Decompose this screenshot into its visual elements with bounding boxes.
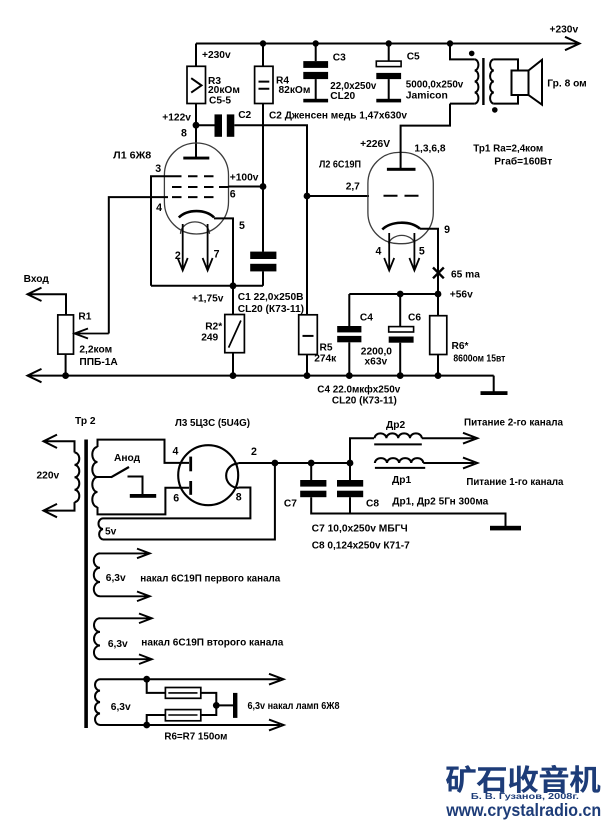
svg-text:6,3v: 6,3v (111, 702, 131, 713)
capacitor C7 (300, 480, 326, 497)
ground chassis bar under C3 (303, 99, 328, 103)
node cathode-R2 junction (230, 282, 237, 289)
tube L2 heater arrow pin 4 (384, 233, 394, 271)
label 6,3v winding 2 (108, 639, 128, 650)
svg-text:C7: C7 (284, 499, 297, 510)
wire pin2 junction down to 5v winding bottom (103, 463, 275, 540)
label R1 value (78, 312, 118, 369)
node rail-R2 (230, 372, 237, 379)
label pin 4 L3 (173, 446, 179, 458)
capacitor C5 (electrolytic) (376, 61, 401, 79)
label nakal 1 kanala (140, 574, 280, 585)
label Gr 8 om (547, 79, 586, 90)
inductor Dr1 (375, 458, 425, 468)
resistor R6 (430, 316, 447, 355)
ground chassis bar under switch (130, 494, 156, 498)
node 6.3v-3 bottom R7 junction (143, 722, 150, 729)
label R6=R7 150om (164, 732, 227, 743)
svg-text:+56v: +56v (450, 290, 473, 301)
capacitor C3 (303, 61, 328, 79)
label L3 5C3S (175, 418, 250, 429)
label 220v (37, 471, 60, 482)
svg-text:274к: 274к (314, 354, 337, 365)
ground chassis bar vertical (233, 693, 237, 718)
wire R5 top lead (306, 196, 308, 315)
ground chassis bar right (481, 391, 508, 395)
node pin2-5v junction (272, 460, 279, 467)
wire R6 bottom lead (437, 355, 439, 376)
svg-text:C8: C8 (366, 499, 379, 510)
svg-text:7: 7 (214, 249, 220, 261)
node +56v C6 (397, 291, 404, 298)
capacitor C1 (250, 252, 276, 272)
wire C4 top lead (348, 294, 350, 326)
node C7 junction (308, 460, 315, 467)
wire Dr2 output arrow (422, 433, 478, 444)
svg-text:+1,75v: +1,75v (192, 294, 224, 305)
svg-text:С5-5: С5-5 (209, 96, 231, 107)
inductor Dr2 (374, 433, 422, 444)
svg-text:5000,0x250v: 5000,0x250v (406, 80, 464, 91)
wire R4 top lead (262, 44, 264, 67)
capacitor C8 (337, 480, 363, 497)
wire R2 bottom lead (232, 353, 234, 376)
tube L1 anode plate (183, 157, 209, 160)
svg-text:8: 8 (181, 128, 187, 140)
label pin 3 (155, 163, 161, 175)
tube L2 grid dashed (pins 2,7) (384, 195, 421, 197)
label pin 4 L2 (376, 246, 382, 258)
wire ground rail with left arrow (27, 369, 494, 382)
wire R5 bottom lead (306, 355, 308, 376)
svg-text:8: 8 (236, 492, 242, 504)
node rail-Tr1 junction (447, 40, 453, 46)
wire 6.3v-2 bottom arrow (100, 654, 152, 664)
wire C8 bottom lead (349, 497, 351, 513)
svg-text:4: 4 (173, 446, 179, 458)
label C2 value (269, 111, 407, 122)
svg-text:6: 6 (230, 189, 236, 201)
tube L2 6S19P envelope (368, 152, 433, 243)
node rail-R6 (435, 372, 442, 379)
label pin 9 (444, 224, 450, 236)
wire R2 top lead (232, 286, 234, 315)
label 6,3v winding 3 (111, 702, 131, 713)
label C4 value (361, 346, 392, 367)
label +1,75v (192, 294, 224, 305)
wire to R6 hum resistor (147, 679, 166, 693)
label 6,3v winding 1 (106, 573, 126, 584)
label pins 2,7 (346, 182, 360, 193)
label pins 1,3,6,8 (414, 144, 445, 155)
node rail-C5 junction (386, 40, 392, 46)
svg-text:накал 6С19П второго канала: накал 6С19П второго канала (141, 638, 283, 649)
node +100v junction (260, 183, 267, 190)
wire C8 top lead (349, 463, 351, 480)
label C3 value (330, 53, 376, 103)
svg-text:82кОм: 82кОм (279, 85, 311, 96)
svg-text:6: 6 (173, 493, 179, 505)
svg-text:C5: C5 (407, 52, 420, 63)
wire Tr1 secondary to speaker (494, 59, 518, 103)
node grid L2 junction (304, 193, 311, 200)
svg-text:Тр1 Ra=2,4ком: Тр1 Ra=2,4ком (473, 144, 543, 155)
svg-text:накал 6С19П первого канала: накал 6С19П первого канала (140, 574, 280, 585)
wire 220v primary bottom lead arrow (43, 502, 75, 517)
wire 6.3v-1 top arrow (100, 549, 150, 559)
label Vhod (24, 274, 50, 285)
label pin 7 (214, 249, 220, 261)
tube L1 cathode arc (179, 211, 214, 217)
wire Tr1 primary bottom lead (450, 103, 475, 105)
label +230v left (202, 50, 231, 61)
transformer Tr1 primary winding (475, 59, 479, 103)
transformer Tr1 core (482, 58, 484, 105)
svg-text:4: 4 (376, 246, 382, 258)
svg-text:Л2 6С19П: Л2 6С19П (319, 160, 361, 171)
svg-text:5: 5 (239, 220, 245, 232)
wire input Vhod with arrow (27, 288, 66, 315)
svg-text:9: 9 (444, 224, 450, 236)
label pin 4 (156, 202, 162, 214)
svg-text:www.crystalradio.cn: www.crystalradio.cn (445, 800, 601, 820)
capacitor C6 (electrolytic) (389, 327, 414, 343)
svg-text:C4: C4 (360, 312, 373, 323)
wire Dr2 branch riser (350, 438, 374, 463)
label Anod (114, 453, 141, 464)
svg-text:2,2ком: 2,2ком (79, 345, 112, 356)
wire C7 bottom lead and ground bus (311, 497, 505, 526)
wire C2 right to grid node of L2 (234, 125, 307, 196)
svg-text:C2 Дженсен медь 1,47x630v: C2 Дженсен медь 1,47x630v (269, 111, 407, 122)
label C4 (360, 312, 373, 323)
label L1 6Zh8 (113, 151, 151, 162)
wire grid pin4 lead to R1 wiper riser (109, 197, 168, 333)
svg-text:R6*: R6* (452, 341, 469, 352)
label nakal 2 kanala (141, 638, 283, 649)
wire HV top lead to pin 4 plate (98, 440, 190, 463)
label Tr1 data (473, 144, 552, 168)
transformer Tr2 6.3v winding 3 (95, 679, 100, 725)
wire C6 top lead (399, 294, 401, 327)
tube L3 anode plate pin 4 (189, 457, 192, 472)
wire HV center tap (98, 476, 112, 478)
ground chassis bar psu (490, 526, 521, 531)
wire HV bottom lead to pin 6 plate (98, 488, 190, 515)
svg-text:C4 22.0мкфх250v: C4 22.0мкфх250v (317, 384, 400, 396)
wire to R7 hum resistor (147, 715, 166, 725)
potentiometer R1 (58, 315, 74, 354)
svg-text:Питание 2-го канала: Питание 2-го канала (464, 418, 563, 429)
label R3 value (208, 76, 240, 107)
svg-text:Л3 5Ц3С (5U4G): Л3 5Ц3С (5U4G) (175, 418, 250, 429)
wire rail right end down (493, 376, 495, 392)
node 8 anode junction (193, 122, 200, 129)
resistor R6 hum (165, 688, 200, 699)
wire C5 bottom lead (388, 79, 390, 99)
resistor R7 hum (165, 710, 200, 721)
svg-text:5: 5 (419, 246, 425, 258)
svg-text:20кОм: 20кОм (208, 85, 240, 96)
tube L1 heater arrow pin 7 (203, 224, 213, 271)
label author B.V.Guzanov 2008 (471, 791, 579, 801)
measure point X 65ma (433, 268, 444, 279)
svg-text:6,3v: 6,3v (108, 639, 128, 650)
label Dr1 (392, 475, 411, 486)
wire L2 anode riser to Tr1 (401, 104, 450, 168)
svg-text:1,3,6,8: 1,3,6,8 (414, 144, 445, 155)
svg-text:6,3v накал ламп 6Ж8: 6,3v накал ламп 6Ж8 (248, 701, 340, 712)
wire R4 bottom lead down to C1 (262, 104, 264, 252)
svg-text:65 ma: 65 ma (451, 270, 480, 281)
label pin 2 (175, 250, 181, 262)
transformer Tr2 HV secondary winding (92, 447, 97, 507)
wire +230v arrow right (565, 37, 580, 50)
transformer Tr2 core (84, 440, 88, 729)
svg-text:8600ом 15вт: 8600ом 15вт (453, 354, 505, 365)
svg-text:х63v: х63v (365, 357, 388, 368)
wire +100v pin6 lead (219, 186, 263, 189)
wire C6 bottom lead (399, 343, 401, 376)
wire C5 top lead (388, 44, 390, 62)
svg-text:2: 2 (175, 250, 181, 262)
label C6 (408, 312, 421, 323)
label R6 value (452, 341, 506, 365)
wire node8 to C2 (196, 124, 215, 126)
wire C3 bottom lead (315, 79, 317, 99)
transformer Tr1 secondary winding (490, 59, 494, 103)
tube L2 bottom dome (389, 235, 416, 243)
wire L2 cathode pin 9 lead (420, 229, 438, 294)
svg-text:Питание 1-го канала: Питание 1-го канала (466, 477, 563, 488)
label R4 value (276, 76, 310, 97)
label +230v right (550, 24, 579, 35)
transformer Tr2 6.3v winding 2 (94, 618, 100, 659)
wire R1 wiper arrow (75, 329, 109, 339)
svg-text:220v: 220v (37, 471, 60, 482)
capacitor C2 (215, 114, 235, 136)
label Pitanie 2 kanala (464, 418, 563, 429)
label R5 value (314, 343, 337, 365)
node C8-Dr2 junction (347, 460, 354, 467)
svg-text:Вход: Вход (24, 274, 50, 285)
wire 6.3v-1 bottom arrow (100, 592, 150, 602)
node rail-C4 (346, 372, 353, 379)
tube L3 5C3S envelope (178, 445, 238, 505)
label 65 ma (451, 270, 480, 281)
svg-text:2: 2 (251, 446, 257, 458)
wire C1 bottom lead (262, 271, 264, 285)
wire 6.3v-3 bottom arrow long (100, 720, 284, 731)
svg-text:R6=R7 150ом: R6=R7 150ом (164, 732, 227, 743)
svg-text:Др1, Др2 5Гн 300ма: Др1, Др2 5Гн 300ма (392, 497, 488, 508)
wire pin 8 to 5v winding top (103, 488, 250, 519)
tube L2 cathode arc (382, 223, 420, 230)
tube L3 anode plate pin 6 (189, 481, 192, 495)
label pin 8 L3 (236, 492, 242, 504)
transformer Tr1 phase dot secondary (492, 107, 498, 113)
speaker Gr 8 om (512, 60, 543, 105)
tube L2 anode plate (387, 168, 416, 171)
label pin 2 L3 (251, 446, 257, 458)
svg-text:C3: C3 (333, 53, 346, 64)
label C7 value (312, 524, 408, 535)
node rail-R1 (62, 372, 69, 379)
wire 220v primary top lead arrow (43, 435, 75, 453)
svg-text:Jamicon: Jamicon (406, 90, 448, 101)
svg-text:R2*: R2* (205, 322, 222, 333)
tube L1 bottom dome (181, 222, 210, 234)
transformer Tr1 phase dot primary (469, 51, 475, 57)
label C4 film value (317, 384, 400, 407)
tube L1 6Zh8 envelope (164, 143, 228, 234)
watermark www.crystalradio.cn (445, 800, 601, 820)
wire R6 R7 center tap to chassis (201, 693, 233, 715)
wire Tr1 primary top feed (450, 44, 475, 60)
wire +230v top rail (196, 43, 577, 45)
svg-text:2,7: 2,7 (346, 182, 360, 193)
wire 6.3v-2 top arrow (100, 614, 152, 624)
svg-text:6,3v: 6,3v (106, 573, 126, 584)
wire R6 top lead (437, 294, 439, 316)
label C7 (284, 499, 297, 510)
wire R1 bottom lead (65, 354, 67, 376)
label pin 6 (230, 189, 236, 201)
svg-text:+122v: +122v (162, 112, 191, 123)
svg-text:R5: R5 (320, 343, 333, 354)
label C8 (366, 499, 379, 510)
svg-text:249: 249 (201, 333, 218, 344)
label pin 5 L2 (419, 246, 425, 258)
label pin 6 L3 (173, 493, 179, 505)
wire pin5 cathode lead (214, 218, 233, 285)
node +56v R6 (435, 291, 442, 298)
wire R3 bottom lead to anode node 8 (195, 104, 197, 158)
label Tr 2 (75, 416, 96, 427)
transformer Tr2 6.3v winding 1 (94, 553, 100, 596)
label +100v (230, 173, 259, 184)
label 6,3v nakal lamp 6Zh8 (248, 701, 340, 712)
svg-text:Гр. 8 ом: Гр. 8 ом (547, 79, 586, 90)
resistor R4 (255, 66, 273, 103)
svg-text:+100v: +100v (230, 173, 259, 184)
wire +56v bus (349, 293, 438, 295)
label Dr1 Dr2 value (392, 497, 488, 508)
wire R3 top lead (195, 44, 197, 67)
wire C7 top lead (310, 463, 312, 480)
svg-text:Л1 6Ж8: Л1 6Ж8 (113, 151, 151, 162)
wire 6.3v-3 top arrow long (100, 674, 284, 685)
label Dr2 (386, 420, 405, 431)
svg-text:+230v: +230v (550, 24, 579, 35)
switch Anod blade (111, 467, 129, 477)
label L2 6S19P (319, 160, 361, 171)
svg-text:Др2: Др2 (386, 420, 405, 431)
svg-text:C7 10,0x250v МБГЧ: C7 10,0x250v МБГЧ (312, 524, 408, 535)
label pin 5 (239, 220, 245, 232)
svg-text:CL20 (К73-11): CL20 (К73-11) (238, 304, 304, 315)
ground chassis bar under C5 (376, 99, 401, 103)
svg-text:Анод: Анод (114, 453, 141, 464)
transformer Tr2 primary 220v winding (75, 453, 80, 503)
node rail-C3 junction (313, 40, 319, 46)
label C5 value (406, 52, 464, 102)
svg-text:R1: R1 (78, 312, 91, 323)
wire C3 top lead (315, 44, 317, 62)
tube L3 filament arc (226, 463, 238, 488)
wire cathode bottom bus (151, 285, 263, 287)
wire grid node L2 to tube (307, 195, 369, 197)
node rail-C6 (397, 372, 404, 379)
resistor R3 (187, 66, 206, 103)
node R6R7 center junction (213, 702, 220, 709)
svg-text:C8 0,124x250v К71-7: C8 0,124x250v К71-7 (312, 541, 410, 552)
label 5v (105, 527, 117, 538)
label +226V (360, 139, 390, 150)
tube L1 grid2 (pin 6) dashed (172, 186, 219, 188)
transformer Tr2 5v winding (99, 518, 104, 539)
svg-text:CL20 (К73-11): CL20 (К73-11) (332, 395, 397, 406)
label C8 value (312, 541, 410, 552)
svg-text:+230v: +230v (202, 50, 231, 61)
capacitor C4 (337, 326, 361, 342)
resistor R2 trimmer (225, 315, 245, 353)
svg-text:ППБ-1А: ППБ-1А (79, 357, 118, 368)
label C1 value (238, 292, 304, 315)
node rail-R4 junction (260, 40, 266, 46)
resistor R5 (299, 315, 318, 355)
svg-text:C2: C2 (238, 110, 251, 121)
svg-text:Др1: Др1 (392, 475, 411, 486)
wire switch contact to ground (128, 477, 143, 495)
wire pin3 lead to left vertical (151, 176, 172, 286)
label C2 (238, 110, 251, 121)
label +122v (162, 112, 191, 123)
svg-text:Ргаб=160Вт: Ргаб=160Вт (494, 156, 552, 168)
tube L2 heater arrow pin 5 (409, 233, 419, 271)
svg-text:4: 4 (156, 202, 162, 214)
wire C4 bottom lead (348, 342, 350, 375)
wire Dr1 output arrow (423, 458, 477, 469)
tube L1 grid3 (pin 4) dashed (172, 196, 219, 198)
node 6.3v-3 top R6 junction (143, 676, 150, 683)
node rail-R5 (304, 372, 311, 379)
svg-text:Тр 2: Тр 2 (75, 416, 96, 427)
svg-text:C6: C6 (408, 312, 421, 323)
label pin 8 L1 (181, 128, 187, 140)
watermark kuangshi shouyinji glyphs (446, 765, 600, 793)
wire pin 2 output bus (238, 462, 350, 464)
label R2 value (201, 322, 222, 344)
tube L1 grid1 (pin 3) dashed (172, 175, 219, 177)
svg-text:+226V: +226V (360, 139, 390, 150)
tube L1 heater arrow pin 2 (178, 224, 188, 271)
label +56v (450, 290, 473, 301)
svg-text:3: 3 (155, 163, 161, 175)
label Pitanie 1 kanala (466, 477, 563, 488)
svg-text:C1 22,0x250В: C1 22,0x250В (238, 292, 304, 303)
svg-text:5v: 5v (105, 527, 117, 538)
svg-text:CL20: CL20 (330, 91, 355, 102)
